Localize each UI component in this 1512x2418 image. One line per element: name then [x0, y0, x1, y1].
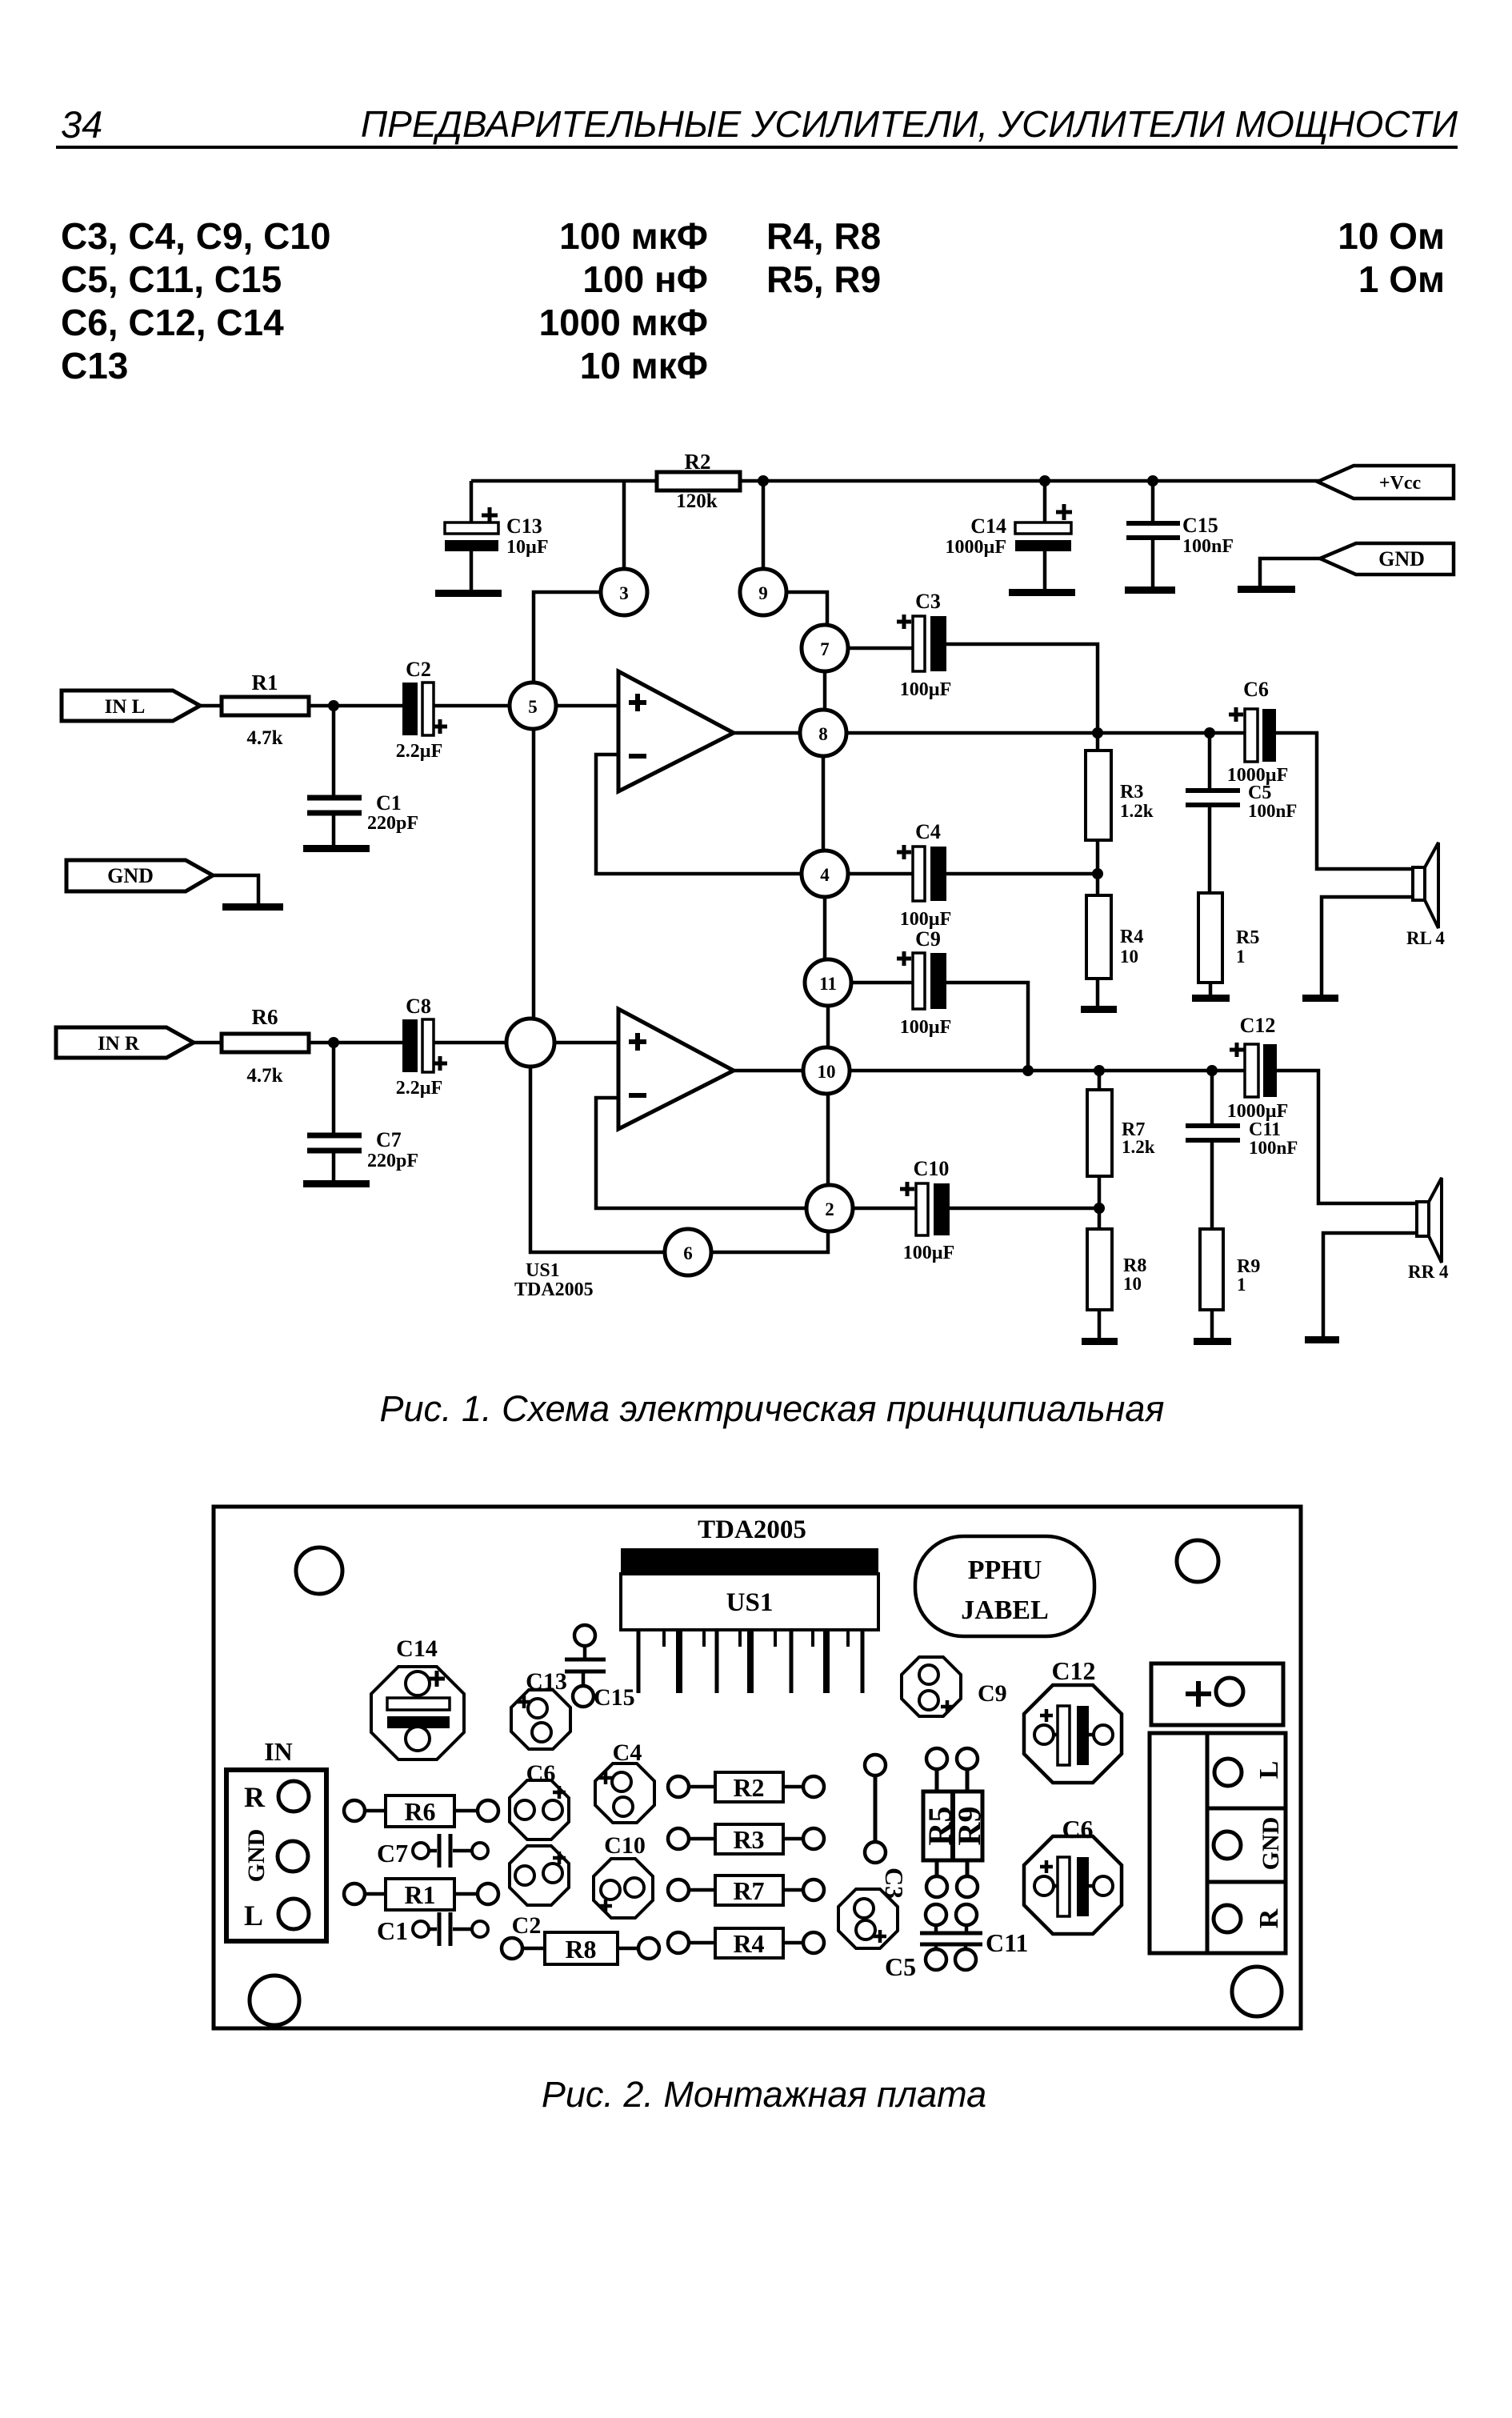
wire pin 1 to op-amp 2	[554, 1041, 618, 1045]
capacitor C6 footprint left	[510, 1760, 569, 1840]
resistor R7 footprint	[668, 1876, 824, 1905]
svg-text:C11: C11	[986, 1928, 1028, 1957]
IC pin extra long	[861, 1630, 865, 1693]
node junction after R1	[328, 700, 339, 711]
ground under C13	[435, 590, 502, 597]
page number 34	[61, 102, 102, 146]
svg-text:C6: C6	[526, 1760, 556, 1787]
capacitor C1 footprint	[377, 1912, 488, 1946]
capacitor C3	[897, 590, 951, 700]
connector +Vcc	[1318, 466, 1454, 498]
ground under C14	[1009, 589, 1075, 596]
wire to pin 3	[622, 481, 626, 569]
speaker RL 4	[1322, 843, 1445, 995]
ground under R8	[1082, 1338, 1118, 1345]
wire R1 to C2	[309, 704, 402, 708]
PCB board outline	[214, 1507, 1301, 2028]
IC pin 3	[676, 1630, 682, 1693]
ground under R4	[1081, 1006, 1117, 1013]
capacitor C15 footprint	[565, 1625, 635, 1711]
components list column 2 values	[1200, 214, 1445, 301]
svg-text:R1: R1	[404, 1880, 435, 1909]
components list column 1 values	[400, 214, 708, 387]
capacitor C8	[396, 995, 447, 1099]
output pad L	[1214, 1759, 1284, 1786]
capacitor C10 footprint	[594, 1832, 653, 1918]
figure 2 caption	[8, 2074, 1512, 2116]
wire feedback U1b	[596, 1098, 806, 1208]
capacitor C9 footprint	[902, 1657, 1007, 1716]
IC pin extra short	[846, 1630, 850, 1647]
node junction C5	[1204, 727, 1215, 739]
resistor R3 footprint	[668, 1824, 824, 1854]
op-amp U1a	[618, 671, 734, 791]
svg-text:PPHU: PPHU	[968, 1555, 1042, 1585]
pin 4	[802, 851, 848, 897]
svg-text:R: R	[1254, 1908, 1284, 1928]
pin 9	[740, 569, 786, 615]
svg-text:GND: GND	[1258, 1817, 1284, 1871]
capacitor C11	[1186, 1071, 1298, 1229]
wire pin 7 to C3	[848, 647, 913, 651]
capacitor C4	[897, 820, 951, 930]
IC pin 2	[662, 1630, 666, 1647]
ground under GND connector	[1238, 586, 1295, 593]
IC pin 8	[774, 1630, 777, 1647]
wire C3 to R3 node	[946, 644, 1098, 733]
capacitor C9	[897, 927, 951, 1038]
svg-text:R7: R7	[733, 1876, 764, 1905]
wire C4 to R4 node	[946, 872, 1098, 876]
capacitor C13	[445, 481, 549, 590]
op-amp U1 IC body	[621, 1548, 878, 1630]
capacitor C1	[307, 706, 418, 846]
ground under speaker RR	[1305, 1336, 1339, 1343]
resistors R5 R9 footprint pair	[922, 1748, 987, 1897]
ground under C7	[303, 1180, 370, 1187]
ground under R5	[1192, 995, 1230, 1002]
mounting hole top-right	[1177, 1540, 1218, 1582]
components list column 1 names	[61, 214, 330, 387]
wire pin 8 to pin 4	[822, 756, 826, 851]
mounting hole bottom-right	[1232, 1967, 1282, 2016]
pin 3	[601, 569, 647, 615]
resistor R5	[1198, 893, 1259, 995]
wire pin 11 to pin 10	[826, 1006, 830, 1047]
wire C8 to pin 1	[434, 1041, 506, 1045]
power terminal +O	[1151, 1663, 1283, 1725]
wire IN L to R1	[200, 704, 222, 708]
IC pin 10	[811, 1630, 814, 1647]
output terminal block	[1150, 1733, 1286, 1953]
svg-text:C6: C6	[1062, 1815, 1093, 1844]
svg-text:C7: C7	[377, 1839, 408, 1868]
wire bus pin5 to pin1	[532, 729, 536, 1019]
svg-text:GND: GND	[243, 1829, 270, 1883]
svg-text:C10: C10	[604, 1832, 646, 1859]
wire +Vcc rail right segment	[740, 479, 1320, 483]
ground under C1	[303, 845, 370, 852]
svg-text:R: R	[244, 1781, 266, 1813]
op-amp U1b	[618, 1009, 734, 1129]
node junction after R2	[758, 475, 769, 486]
svg-text:R4: R4	[733, 1929, 764, 1958]
capacitor C3 footprint	[838, 1868, 909, 1948]
wire pin 5 to op-amp	[556, 704, 618, 708]
node junction after R6	[328, 1037, 339, 1048]
resistor R1	[222, 671, 309, 749]
svg-text:R9: R9	[951, 1807, 987, 1846]
svg-text:C12: C12	[1051, 1656, 1095, 1685]
svg-text:JABEL: JABEL	[961, 1595, 1049, 1625]
capacitor C15	[1126, 481, 1234, 586]
svg-text:R8: R8	[565, 1935, 596, 1964]
input pad L	[244, 1899, 309, 1932]
capacitor C4 footprint	[595, 1739, 654, 1823]
resistor R6	[222, 1005, 309, 1087]
svg-text:C14: C14	[396, 1635, 438, 1662]
svg-text:R3: R3	[733, 1825, 764, 1854]
svg-text:C2: C2	[512, 1912, 542, 1939]
pin 5	[510, 683, 556, 729]
resistor R4 footprint	[668, 1928, 824, 1958]
IC pin 11	[823, 1630, 830, 1693]
wire bus pin1 to pin6	[530, 1067, 665, 1252]
node junction C9 wire	[1022, 1065, 1034, 1076]
header rule	[56, 146, 1458, 149]
mounting hole bottom-left	[250, 1976, 299, 2025]
IC designator US1 TDA2005	[514, 1260, 594, 1300]
wire pin 6 to pin 2	[711, 1231, 828, 1252]
capacitor C12	[1227, 1014, 1289, 1122]
capacitor C5	[1186, 733, 1297, 893]
wire pin 11 to C9	[851, 981, 913, 985]
wire pin 10 output line	[850, 1069, 1245, 1073]
ground under R9	[1194, 1338, 1231, 1345]
svg-text:C9: C9	[978, 1680, 1007, 1707]
capacitor C2	[396, 658, 447, 762]
svg-text:R2: R2	[733, 1773, 764, 1802]
svg-text:C5: C5	[885, 1952, 916, 1981]
node junction R7 top	[1094, 1065, 1105, 1076]
wire op-amp output to pin 8	[734, 731, 800, 735]
ground under GND input	[222, 903, 283, 911]
capacitor C12 footprint	[1024, 1656, 1122, 1783]
pin 7	[802, 625, 848, 671]
capacitor C14 footprint	[371, 1635, 464, 1759]
output pad R	[1214, 1905, 1284, 1932]
resistor R7	[1087, 1071, 1155, 1229]
svg-text:R6: R6	[404, 1797, 435, 1826]
IC pin 6	[738, 1630, 742, 1647]
capacitor C13 footprint	[511, 1668, 570, 1749]
node junction R3 top	[1092, 727, 1103, 739]
capacitor C14	[946, 481, 1073, 590]
svg-text:C1: C1	[377, 1916, 408, 1945]
wire C10 to R7/R8 node	[950, 1207, 1099, 1211]
IC pin 9	[790, 1630, 794, 1693]
node junction at C15	[1147, 475, 1158, 486]
mounting hole top-left	[296, 1547, 342, 1594]
IC pin 7	[747, 1630, 754, 1693]
node junction at C14	[1039, 475, 1050, 486]
wire +Vcc rail left segment	[471, 479, 657, 483]
wire C6 to speaker RL	[1276, 733, 1413, 869]
svg-text:US1: US1	[726, 1588, 774, 1617]
wire pin 8 output line	[846, 731, 1245, 735]
svg-text:L: L	[1254, 1761, 1284, 1779]
wire pin 9 to pin 7	[786, 592, 827, 625]
svg-text:L: L	[244, 1900, 263, 1932]
capacitor C6 footprint right	[1024, 1815, 1122, 1934]
speaker RR 4	[1323, 1178, 1449, 1336]
pin 6	[665, 1229, 711, 1275]
capacitor C10	[900, 1157, 954, 1263]
capacitor C7	[307, 1043, 418, 1181]
IC pin 1	[637, 1630, 641, 1693]
wire pin 4 to C4	[848, 872, 913, 876]
pin circle (input R)	[506, 1019, 554, 1067]
wire C12 to speaker RR	[1277, 1071, 1417, 1203]
wire pin 4 to pin 11	[823, 897, 827, 959]
capacitor C7 footprint	[377, 1834, 488, 1868]
connector IN L	[62, 691, 200, 721]
node junction C11	[1206, 1065, 1218, 1076]
pin 11	[805, 959, 851, 1006]
wire feedback U1a	[596, 755, 802, 874]
resistor R2 footprint	[668, 1772, 824, 1802]
input pad R	[244, 1781, 309, 1813]
svg-text:C15: C15	[594, 1684, 635, 1711]
resistor R6 footprint	[344, 1795, 498, 1827]
IC pin 4	[702, 1630, 706, 1647]
svg-text:TDA2005: TDA2005	[698, 1515, 806, 1544]
connector GND (input)	[66, 860, 258, 904]
resistor R9	[1200, 1229, 1260, 1338]
figure 1 caption	[16, 1388, 1512, 1430]
IC pin 5	[715, 1630, 719, 1693]
connector GND (power)	[1260, 543, 1454, 586]
connector IN R	[56, 1027, 194, 1058]
components list column 2 names	[766, 214, 881, 301]
wire IN R to R6	[194, 1041, 222, 1045]
input header IN	[226, 1737, 326, 1941]
input pad GND	[243, 1829, 308, 1883]
resistor R4	[1086, 874, 1143, 1007]
wire C2 to pin 5	[434, 704, 510, 708]
maker logo PPHU JABEL	[915, 1536, 1094, 1636]
resistor R3	[1086, 733, 1154, 874]
pin 10	[803, 1047, 850, 1094]
wire bus pin3 to pin5	[534, 592, 601, 683]
node junction R3/R4	[1092, 868, 1103, 879]
capacitor C11 footprint	[920, 1904, 1028, 1970]
resistor R8	[1087, 1229, 1146, 1338]
capacitor C6	[1227, 678, 1289, 786]
resistor R1 footprint	[344, 1879, 498, 1910]
resistor R8 footprint	[502, 1932, 659, 1964]
pin 2	[806, 1185, 853, 1231]
svg-text:IN: IN	[264, 1737, 293, 1766]
wire pin 10 to pin 2	[826, 1094, 830, 1185]
running head title	[0, 102, 1458, 146]
resistor R2	[657, 450, 740, 512]
wire R6 to C8	[309, 1041, 402, 1045]
node junction R7/R8	[1094, 1203, 1105, 1214]
pin 8	[800, 710, 846, 756]
wire C9 down to pin 10 line	[946, 983, 1028, 1071]
capacitor C2 footprint	[510, 1846, 569, 1939]
wire to pin 9	[762, 481, 766, 569]
wire pin 7 to pin 8	[823, 671, 827, 710]
ground under C15	[1125, 586, 1175, 594]
jumper wire	[865, 1755, 886, 1863]
output pad GND	[1214, 1817, 1284, 1871]
wire pin 2 to C10	[853, 1207, 916, 1211]
ground under speaker RL	[1302, 995, 1338, 1002]
wire op-amp 2 output	[734, 1069, 803, 1073]
